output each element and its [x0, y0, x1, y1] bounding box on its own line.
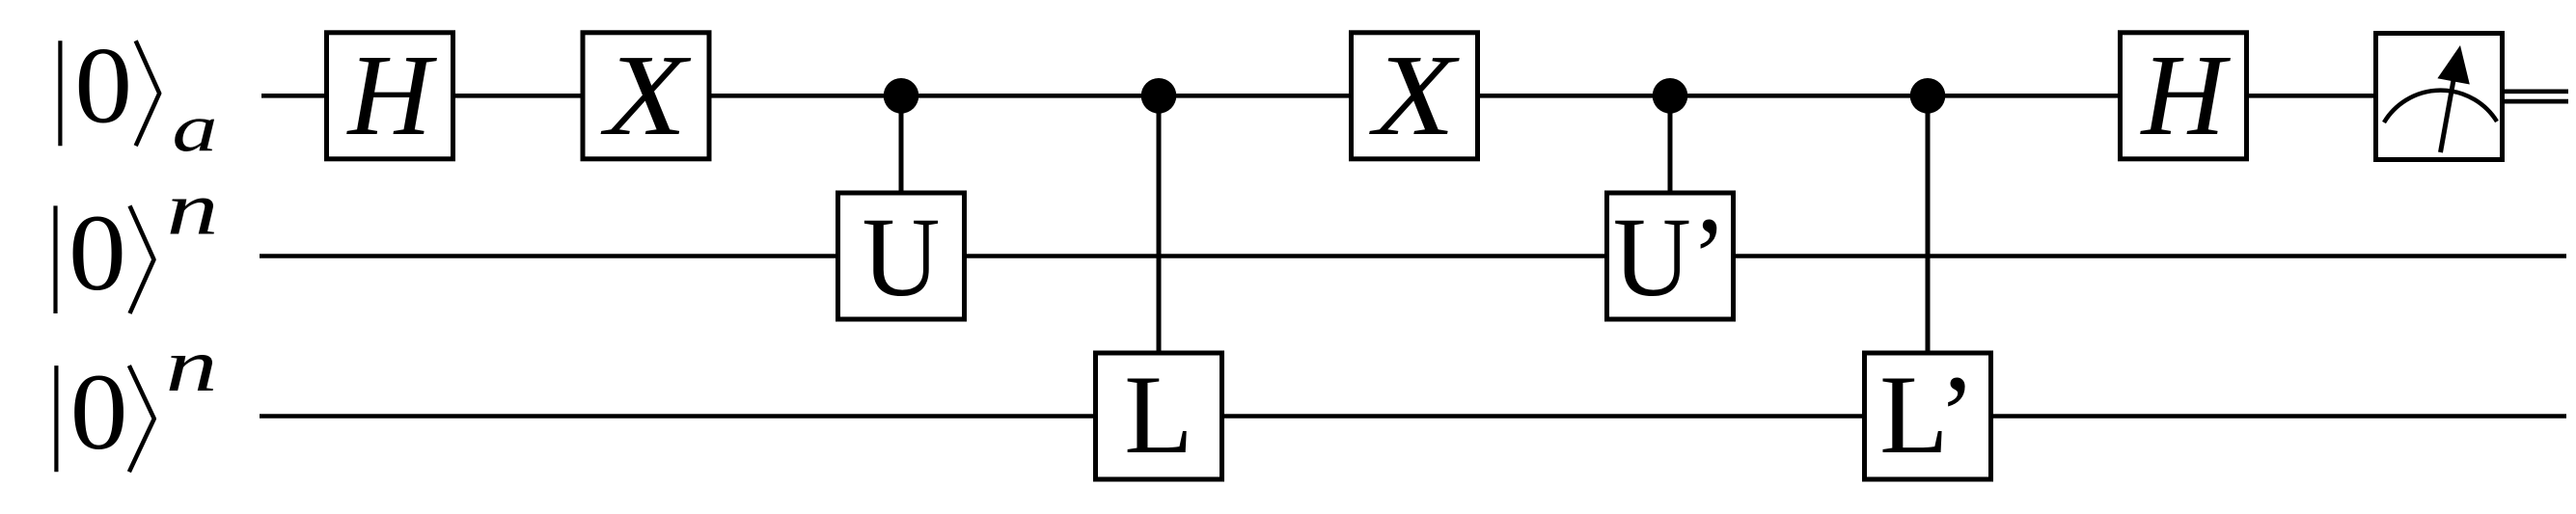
gate L' (controlled-L-prime box) [1865, 353, 1991, 479]
qubit label |0>^n (middle) [56, 167, 219, 313]
qubit label |0>^n (bottom) [56, 324, 217, 473]
svg-text:H: H [345, 32, 437, 160]
measurement meter M [2376, 34, 2503, 160]
control dot CTRL4 [1910, 78, 1946, 114]
svg-text:n: n [166, 324, 218, 407]
svg-text:n: n [167, 167, 219, 250]
svg-text:U’: U’ [1613, 193, 1727, 319]
gate U (controlled-U box) [838, 193, 965, 320]
wire q0 (ancilla wire, top) [261, 94, 2505, 98]
classical double wire out of meter [2505, 92, 2568, 101]
wire control line to L' [1926, 95, 1931, 416]
wire control line to L [1157, 95, 1162, 416]
wire q1 (middle register wire) [260, 254, 2566, 258]
svg-text:X: X [1368, 31, 1460, 160]
gate H2 (Hadamard, second) [2121, 32, 2247, 160]
svg-text:a: a [172, 91, 217, 165]
svg-text:L: L [1124, 353, 1192, 477]
gate U' (controlled-U-prime box) [1607, 193, 1734, 320]
wire control line to U [899, 95, 904, 256]
control dot CTRL3 [1653, 78, 1688, 114]
svg-text:L’: L’ [1879, 353, 1976, 477]
wire q2 (bottom register wire) [260, 414, 2566, 419]
qubit label |0>_a [60, 26, 217, 166]
gate X2 (Pauli-X, second) [1352, 31, 1478, 160]
control dot CTRL2 [1141, 78, 1177, 114]
gate L (controlled-L box) [1096, 353, 1222, 479]
svg-text:H: H [2139, 32, 2231, 160]
gate X1 (Pauli-X, first) [583, 31, 709, 160]
svg-text:0: 0 [70, 352, 128, 473]
control dot CTRL1 [884, 78, 919, 114]
svg-text:X: X [600, 31, 692, 160]
svg-text:0: 0 [74, 26, 132, 147]
svg-text:0: 0 [69, 193, 126, 313]
gate H1 (Hadamard, first) [327, 32, 453, 160]
svg-text:U: U [863, 193, 941, 319]
wire control line to U' [1668, 95, 1673, 256]
